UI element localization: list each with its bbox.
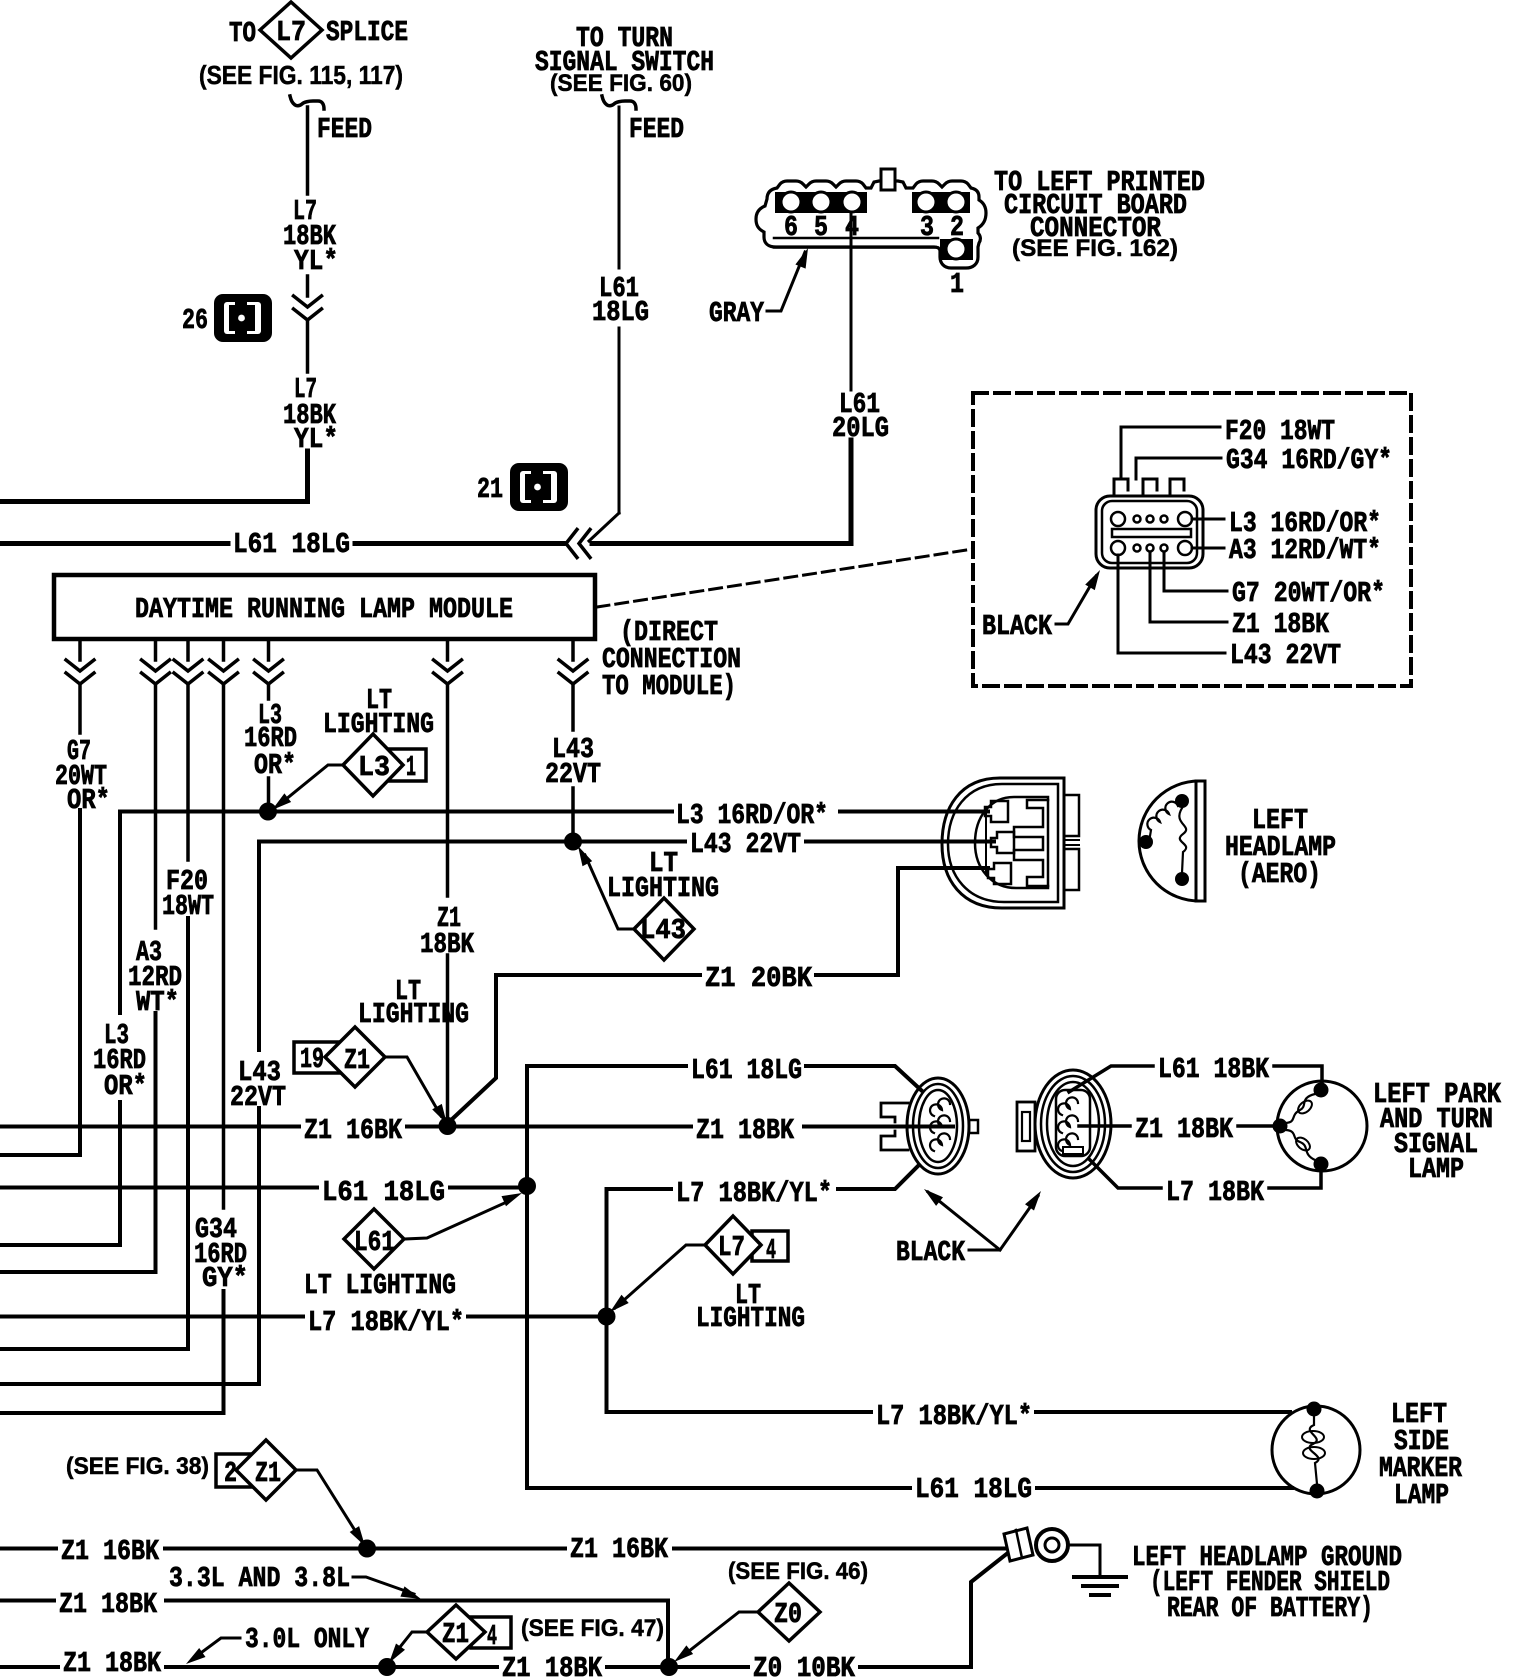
- connector icon 26: [182, 294, 272, 342]
- direct connection chevrons: [434, 660, 462, 671]
- wire A3 12RD/WT* leader: [1192, 534, 1381, 567]
- wire Z1 20BK left leg to junction: [449, 975, 496, 1122]
- feed symbol turn signal: [602, 96, 636, 109]
- wire Z1 18BK from connector to park lamp: [1079, 1113, 1276, 1146]
- svg-text:YL*: YL*: [294, 423, 338, 456]
- label L61 18LG vertical: [592, 272, 649, 329]
- svg-text:26: 26: [182, 304, 208, 337]
- ground symbol: [1068, 1545, 1126, 1595]
- svg-text:LIGHTING: LIGHTING: [696, 1302, 805, 1335]
- connector icon 21: [477, 463, 568, 511]
- wire L7 18BK from connector to park lamp: [1090, 1160, 1321, 1209]
- lamp left headlamp AERO: [1139, 781, 1205, 901]
- svg-text:Z1: Z1: [344, 1044, 370, 1077]
- wire L43 staircase to left exit: [0, 1108, 259, 1384]
- wire Z1 18BK row to first connector: [448, 1114, 954, 1147]
- pin numbers 6 5 4 3 2 1: [784, 211, 964, 301]
- svg-text:LAMP: LAMP: [1394, 1479, 1449, 1512]
- svg-text:(AERO): (AERO): [1238, 858, 1321, 891]
- wire L61 18BK from connector to park lamp: [1069, 1053, 1322, 1092]
- direct connection chevrons: [559, 660, 587, 671]
- connector left park lamp half B (3-way oval): [1017, 1070, 1111, 1178]
- wire L43 22VT horizontal: [259, 828, 994, 861]
- wire Z1 18BK below chevrons: [446, 684, 450, 896]
- svg-text:LIGHTING: LIGHTING: [323, 708, 434, 741]
- label L3 16RD/OR* at module: [244, 699, 297, 782]
- wire G34 below chevrons: [222, 684, 226, 1208]
- svg-text:L61 18LG: L61 18LG: [691, 1054, 802, 1087]
- wire module exit at x=188: [186, 639, 190, 660]
- svg-text:20LG: 20LG: [832, 412, 889, 445]
- wire G7 20WT/OR* leader: [1164, 552, 1385, 610]
- symbol Z1 splice circuit 2 (SEE FIG. 38): [66, 1440, 365, 1546]
- svg-text:DAYTIME RUNNING LAMP MODULE: DAYTIME RUNNING LAMP MODULE: [135, 593, 513, 626]
- svg-text:22VT: 22VT: [545, 758, 601, 791]
- svg-text:Z1: Z1: [442, 1618, 469, 1651]
- connector left park lamp half A (3-way oval): [881, 1078, 978, 1174]
- wire G34 to left exit: [0, 1291, 224, 1413]
- in-line connector chevrons on wire L7: [294, 296, 322, 307]
- junction L43: [564, 833, 582, 851]
- svg-text:Z1 18BK: Z1 18BK: [59, 1588, 157, 1621]
- wire A3 below chevrons: [154, 684, 158, 928]
- wire L7 to side marker lamp: [1036, 1410, 1290, 1414]
- svg-text:OR*: OR*: [104, 1070, 147, 1103]
- connector gray 6-way (left printed circuit board): [756, 169, 986, 268]
- node turn signal switch reference: [535, 22, 714, 97]
- wire Z1 16BK row to left exit: [0, 1114, 448, 1147]
- inline connector chevrons on L61 row: [566, 530, 577, 558]
- svg-text:5: 5: [814, 211, 828, 244]
- label L43 22VT staircase: [230, 1056, 286, 1114]
- wire L61 riser to connector pin 4: [850, 212, 853, 390]
- symbol LT LIGHTING L61 diamond: [304, 1193, 522, 1302]
- svg-text:G7 20WT/OR*: G7 20WT/OR*: [1232, 577, 1385, 610]
- junction Z0: [660, 1658, 678, 1676]
- wire module exit at x=80: [78, 639, 82, 660]
- wire F20 to left exit: [0, 918, 188, 1349]
- svg-text:LAMP: LAMP: [1408, 1153, 1464, 1186]
- junction Z1: [439, 1117, 457, 1135]
- wire L3 16RD/OR* horizontal to headlamp: [120, 799, 988, 832]
- symbol LT LIGHTING L3 destination: [272, 684, 434, 810]
- wire L61 down to side marker: [527, 1186, 910, 1488]
- svg-text:(SEE FIG. 60): (SEE FIG. 60): [550, 70, 692, 97]
- label LEFT HEADLAMP (AERO): [1225, 804, 1336, 891]
- wire L61 continue down: [618, 328, 621, 513]
- wire L61 into first connector: [806, 1066, 921, 1090]
- svg-text:Z0 10BK: Z0 10BK: [753, 1652, 855, 1678]
- svg-text:Z1 18BK: Z1 18BK: [502, 1652, 602, 1678]
- wire G7 below chevrons: [78, 684, 82, 733]
- wire L61 row to chevrons: [355, 541, 563, 546]
- wire L7 below label: [306, 276, 310, 296]
- svg-text:YL*: YL*: [294, 245, 338, 278]
- wire L7 into first connector: [838, 1165, 919, 1189]
- label L7 18BK/YL* to connector: [676, 1177, 832, 1210]
- wire L3 staircase to left exit: [0, 1102, 120, 1245]
- wire L61 diagonal into splice chevron: [589, 513, 619, 541]
- direct connection chevrons: [142, 660, 170, 671]
- svg-text:G34 16RD/GY*: G34 16RD/GY*: [1226, 444, 1392, 477]
- svg-text:19: 19: [300, 1043, 324, 1076]
- wire Z1 16BK bottom row: [0, 1533, 1006, 1568]
- svg-text:L7: L7: [276, 16, 306, 49]
- junction L3: [259, 803, 277, 821]
- wire F20 18WT leader: [1121, 415, 1335, 479]
- svg-text:Z1 18BK: Z1 18BK: [696, 1114, 794, 1147]
- label BLACK with arrows to connectors: [896, 1189, 1041, 1269]
- svg-text:TO: TO: [229, 17, 256, 50]
- label L3 16RD/OR* staircase: [93, 1019, 147, 1103]
- wire Z1 18BK row 3.0L: [0, 1552, 1009, 1678]
- svg-text:TO MODULE): TO MODULE): [602, 670, 736, 703]
- svg-text:L61 18LG: L61 18LG: [915, 1473, 1032, 1506]
- symbol LT LIGHTING L43 destination: [578, 846, 719, 960]
- wire L7 down to side marker: [607, 1317, 872, 1413]
- wire A3 to left exit: [0, 1013, 156, 1272]
- label L7 18BK YL*: [283, 195, 338, 278]
- svg-text:Z0: Z0: [774, 1598, 802, 1631]
- svg-text:L7: L7: [718, 1231, 745, 1264]
- wire L43 to junction: [571, 788, 575, 842]
- wire L61 18LG from turn signal switch: [618, 107, 621, 268]
- direct connection chevrons: [174, 660, 202, 671]
- node L7 splice reference (TO L7 SPLICE): [199, 2, 408, 90]
- direct connection chevrons: [255, 660, 283, 671]
- wire L61 row to riser corner: [592, 440, 851, 544]
- svg-text:3.0L ONLY: 3.0L ONLY: [245, 1623, 369, 1656]
- junction Z1 3.0L: [378, 1658, 396, 1676]
- svg-text:A3 12RD/WT*: A3 12RD/WT*: [1229, 534, 1381, 567]
- wire L3 16RD/OR* leader: [1192, 507, 1381, 540]
- label DIRECT CONNECTION TO MODULE: [602, 616, 741, 703]
- wire L3 left branch down to exit: [118, 812, 122, 1014]
- label LEFT SIDE MARKER LAMP: [1379, 1398, 1462, 1512]
- feed symbol L7: [290, 96, 324, 109]
- direct connection chevrons: [66, 660, 94, 671]
- svg-text:Z1: Z1: [255, 1457, 281, 1490]
- wire L3 to junction: [267, 778, 271, 812]
- junction L61: [518, 1177, 536, 1195]
- wire F20 below chevrons: [186, 684, 190, 860]
- svg-text:3: 3: [920, 211, 934, 244]
- wire module exit at x=268.5: [267, 639, 271, 660]
- svg-text:Z1 16BK: Z1 16BK: [61, 1535, 159, 1568]
- connector black 10-way (module connector): [1096, 479, 1203, 568]
- label F20 18WT: [162, 865, 214, 923]
- label L61 18LG row: [233, 528, 350, 561]
- wire L3 below chevrons: [267, 684, 271, 699]
- wire G34 16RD/GY* leader: [1136, 444, 1392, 479]
- wire L7 riser to connector: [607, 1189, 672, 1317]
- wire L7 between connector and label: [306, 320, 310, 372]
- symbol Z0 splice (SEE FIG. 46): [674, 1558, 868, 1662]
- svg-text:OR*: OR*: [67, 784, 110, 817]
- label L61 18LG to connector: [691, 1054, 802, 1087]
- label L43 22VT module wire: [545, 733, 601, 791]
- label BLACK with arrow to module connector: [982, 570, 1100, 643]
- label L7 18BK YL* lower: [283, 373, 338, 456]
- svg-text:2: 2: [224, 1457, 237, 1490]
- svg-text:L61 18LG: L61 18LG: [233, 528, 350, 561]
- daytime running lamp module box: [54, 575, 595, 639]
- svg-text:3.3L AND 3.8L: 3.3L AND 3.8L: [169, 1562, 350, 1595]
- svg-text:OR*: OR*: [254, 749, 296, 782]
- svg-text:21: 21: [477, 473, 503, 506]
- wire L61 18LG row: [0, 1176, 527, 1209]
- svg-text:L7 18BK: L7 18BK: [1166, 1176, 1264, 1209]
- wire L43 below chevrons: [571, 684, 575, 730]
- node left printed circuit board connector reference: [994, 166, 1205, 262]
- svg-text:L43: L43: [640, 914, 686, 947]
- svg-text:(SEE FIG. 38): (SEE FIG. 38): [66, 1453, 209, 1480]
- wire Z1 18BK row 3.3L: [0, 1588, 668, 1667]
- label FEED: [317, 113, 372, 146]
- svg-text:BLACK: BLACK: [982, 610, 1052, 643]
- wire L43 left branch down: [257, 842, 261, 1051]
- junction L7: [598, 1308, 616, 1326]
- svg-text:FEED: FEED: [629, 113, 684, 146]
- dashed leader from module to detail box: [597, 549, 973, 607]
- wire module exit at x=447.5: [446, 639, 450, 660]
- label Z1 18BK module wire: [420, 902, 474, 961]
- wire Z1 to junction: [446, 955, 450, 1126]
- label L7 18BK/YL* to side marker: [876, 1400, 1032, 1433]
- wire Z1 20BK: [496, 868, 988, 995]
- wire L61 to side marker lamp: [1037, 1486, 1292, 1490]
- symbol Z1 splice circuit 4 (SEE FIG. 47): [389, 1605, 664, 1663]
- svg-text:L43 22VT: L43 22VT: [690, 828, 801, 861]
- svg-text:Z1 20BK: Z1 20BK: [705, 962, 813, 995]
- svg-text:L3: L3: [358, 751, 390, 784]
- wire module exit at x=223.5: [222, 639, 226, 660]
- wire L7 down to left exit: [0, 451, 308, 502]
- svg-text:(SEE FIG. 162): (SEE FIG. 162): [1012, 235, 1178, 262]
- wire L43 22VT leader: [1118, 555, 1341, 672]
- svg-text:(SEE FIG. 47): (SEE FIG. 47): [521, 1615, 664, 1642]
- svg-text:4: 4: [766, 1234, 776, 1267]
- label L61 20LG: [832, 388, 889, 445]
- svg-text:(SEE FIG. 46): (SEE FIG. 46): [728, 1558, 868, 1585]
- svg-text:REAR OF BATTERY): REAR OF BATTERY): [1167, 1592, 1373, 1625]
- svg-text:L61 18LG: L61 18LG: [322, 1176, 445, 1209]
- junction Z1 bottom: [358, 1540, 376, 1558]
- wire L61 20LG from pin 4 top segment: [850, 212, 853, 390]
- wire L61 18LG horizontal row: [0, 541, 228, 546]
- svg-text:1: 1: [406, 751, 416, 784]
- svg-text:(SEE FIG. 115, 117): (SEE FIG. 115, 117): [199, 60, 403, 90]
- svg-text:L7 18BK/YL*: L7 18BK/YL*: [676, 1177, 832, 1210]
- label LEFT PARK AND TURN SIGNAL LAMP: [1373, 1078, 1501, 1186]
- connector left headlamp (3-way): [942, 778, 1079, 908]
- svg-text:L7 18BK/YL*: L7 18BK/YL*: [308, 1306, 464, 1339]
- symbol LT LIGHTING L7 circuit 4: [610, 1216, 805, 1335]
- wire module exit at x=573: [571, 639, 575, 660]
- label LEFT HEADLAMP GROUND: [1132, 1541, 1402, 1625]
- ring terminal left headlamp ground: [1004, 1528, 1068, 1561]
- label 3.3L AND 3.8L with arrow: [169, 1562, 421, 1599]
- svg-text:L61 18BK: L61 18BK: [1158, 1053, 1269, 1086]
- direct connection chevrons: [210, 660, 238, 671]
- label 3.0L ONLY with arrow: [186, 1623, 369, 1664]
- svg-text:FEED: FEED: [317, 113, 372, 146]
- wire L7 18BK/YL* row: [0, 1306, 606, 1339]
- wire L7 18BK/YL* from splice feed: [306, 107, 310, 194]
- label G7 20WT/OR*: [55, 735, 110, 817]
- svg-text:Z1 16BK: Z1 16BK: [304, 1114, 402, 1147]
- label A3 12RD/WT*: [128, 936, 182, 1019]
- svg-text:2: 2: [950, 211, 964, 244]
- lamp left side marker: [1272, 1402, 1360, 1499]
- svg-text:Z1 18BK: Z1 18BK: [63, 1647, 161, 1678]
- svg-text:BLACK: BLACK: [896, 1236, 965, 1269]
- wire G7 to left exit: [0, 810, 80, 1155]
- symbol LT LIGHTING Z1 circuit 19: [294, 975, 469, 1124]
- svg-text:Z1 18BK: Z1 18BK: [1135, 1113, 1233, 1146]
- svg-text:LIGHTING: LIGHTING: [358, 998, 469, 1031]
- label G34 16RD/GY*: [194, 1213, 248, 1295]
- label GRAY with leader: [709, 248, 808, 330]
- wire module exit at x=155.5: [154, 639, 158, 660]
- wire Z1 18BK leader: [1150, 552, 1329, 641]
- svg-text:Z1 18BK: Z1 18BK: [1232, 608, 1329, 641]
- svg-text:6: 6: [784, 211, 798, 244]
- svg-text:LT LIGHTING: LT LIGHTING: [304, 1269, 456, 1302]
- svg-text:1: 1: [950, 268, 964, 301]
- svg-text:Z1 16BK: Z1 16BK: [570, 1533, 668, 1566]
- label L61 18LG to side marker: [915, 1473, 1032, 1506]
- svg-text:SPLICE: SPLICE: [326, 16, 408, 49]
- svg-text:18LG: 18LG: [592, 296, 649, 329]
- svg-text:L61: L61: [354, 1226, 395, 1259]
- detail box (dashed) for module connector: [973, 393, 1411, 686]
- lamp left park and turn signal: [1273, 1081, 1368, 1172]
- svg-text:L43 22VT: L43 22VT: [1230, 639, 1341, 672]
- wire L61 riser: [527, 1066, 686, 1186]
- label FEED turn signal: [629, 113, 684, 146]
- svg-text:GRAY: GRAY: [709, 297, 764, 330]
- svg-text:L7 18BK/YL*: L7 18BK/YL*: [876, 1400, 1032, 1433]
- svg-text:4: 4: [487, 1620, 497, 1653]
